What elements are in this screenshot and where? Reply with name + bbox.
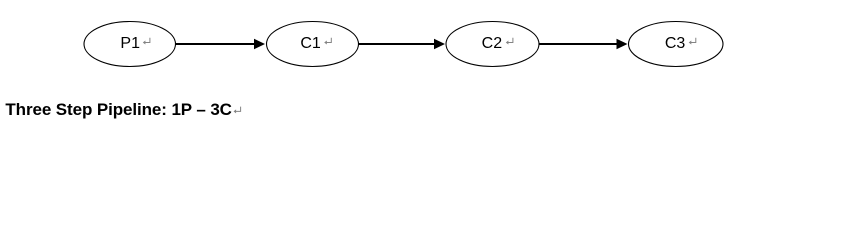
node C1 [267,22,359,67]
wire arrow C1 to C2 [359,39,446,50]
caption: Three Step Pipeline: 1P - 3C [5,100,231,119]
return mark after P1 [143,38,150,45]
svg-text:C3: C3 [665,35,686,52]
svg-text:C2: C2 [482,35,503,52]
node C2 [446,22,539,67]
return mark after C1 [324,38,331,45]
node P1 [84,22,176,67]
svg-text:P1: P1 [120,35,140,52]
return mark after caption [234,107,241,114]
svg-text:C1: C1 [300,35,321,52]
svg-text:Three Step Pipeline: 1P – 3C: Three Step Pipeline: 1P – 3C [5,100,231,119]
node C3 [629,22,724,67]
wire arrow P1 to C1 [176,39,266,50]
return mark after C2 [506,38,513,45]
return mark after C3 [689,38,696,45]
wire arrow C2 to C3 [539,39,628,50]
